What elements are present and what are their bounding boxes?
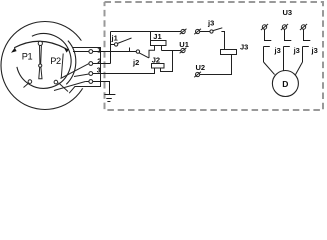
crossing leads from right screw	[54, 82, 85, 92]
wire connector to pilot contact j3	[200, 31, 210, 33]
svg-text:1: 1	[97, 47, 101, 54]
left screw lead	[24, 83, 29, 88]
terminal 3 circle	[89, 72, 93, 76]
connector pair on top wire	[180, 29, 201, 35]
terminal U3 phase c	[300, 24, 307, 30]
ground	[104, 95, 115, 102]
lead to terminal 3	[74, 74, 89, 77]
svg-text:U3: U3	[283, 8, 293, 17]
wire phase a to motor	[264, 62, 275, 75]
pointer line below right arrowhead	[61, 54, 63, 79]
terminal 4 lead tick	[85, 81, 89, 83]
wire to terminal U1	[162, 50, 181, 52]
contact j3 phase c	[303, 29, 311, 62]
svg-text:j3: j3	[274, 46, 281, 55]
svg-text:j2: j2	[132, 58, 139, 67]
relay coil J2	[152, 51, 173, 72]
svg-text:D: D	[282, 79, 288, 89]
dashed enclosure (controller box border)	[105, 2, 324, 110]
contact j3 phase b	[284, 29, 292, 70]
svg-text:J2: J2	[152, 56, 160, 65]
svg-text:P1: P1	[22, 51, 33, 61]
top wire to connector pair	[111, 31, 182, 33]
terminal 1 circle	[89, 50, 93, 54]
right screw contact	[54, 80, 58, 84]
terminal 4 circle	[89, 80, 93, 84]
vertical bus wire	[110, 32, 112, 64]
needle foot	[39, 67, 42, 79]
terminal U3 phase b	[281, 24, 288, 30]
setting range arc	[14, 41, 66, 49]
svg-text:j3: j3	[293, 46, 300, 55]
contact j1	[111, 38, 132, 46]
pressure switch outer circle	[1, 22, 89, 110]
wire terminal 4 to ground	[93, 82, 110, 95]
wire terminal 1 to contact j2	[93, 51, 136, 53]
motor D	[272, 71, 298, 97]
connector tab housing (white knockout)	[66, 41, 101, 94]
svg-text:J3: J3	[240, 43, 248, 52]
wire into terminal 1	[73, 51, 89, 53]
right arrowhead	[64, 48, 69, 53]
svg-text:j3: j3	[207, 19, 214, 28]
wire terminal 2 to bus	[93, 63, 111, 65]
pressure switch inner dial arc	[17, 34, 71, 89]
relay coil J1	[149, 32, 166, 58]
needle top pivot circle	[38, 41, 42, 45]
needle mid pivot	[39, 64, 42, 67]
svg-text:2: 2	[97, 58, 101, 65]
contact j3 phase a	[264, 29, 272, 62]
left screw contact	[28, 80, 32, 84]
svg-text:U2: U2	[196, 63, 206, 72]
terminal U3 phase a	[261, 24, 268, 30]
svg-text:U1: U1	[179, 40, 189, 49]
left arrowhead	[11, 48, 17, 53]
pilot contact j3	[210, 28, 225, 33]
j1 fixed contact stub	[129, 48, 131, 52]
terminal U2	[194, 72, 201, 78]
needle shaft	[40, 46, 42, 64]
terminal 2 circle	[89, 62, 93, 66]
svg-text:j1: j1	[111, 34, 118, 43]
terminal U1	[180, 48, 187, 54]
wire terminal 3 to coil J2	[93, 68, 155, 74]
lead to terminal 2	[61, 64, 89, 79]
contact j2	[136, 50, 149, 58]
bezel arc at tab neck	[66, 41, 76, 85]
svg-text:P2: P2	[50, 56, 61, 66]
tab outline	[69, 48, 100, 94]
svg-text:J1: J1	[153, 32, 161, 41]
wire phase c to motor	[296, 62, 303, 75]
relay coil J3	[200, 32, 237, 75]
svg-text:j3: j3	[311, 46, 318, 55]
